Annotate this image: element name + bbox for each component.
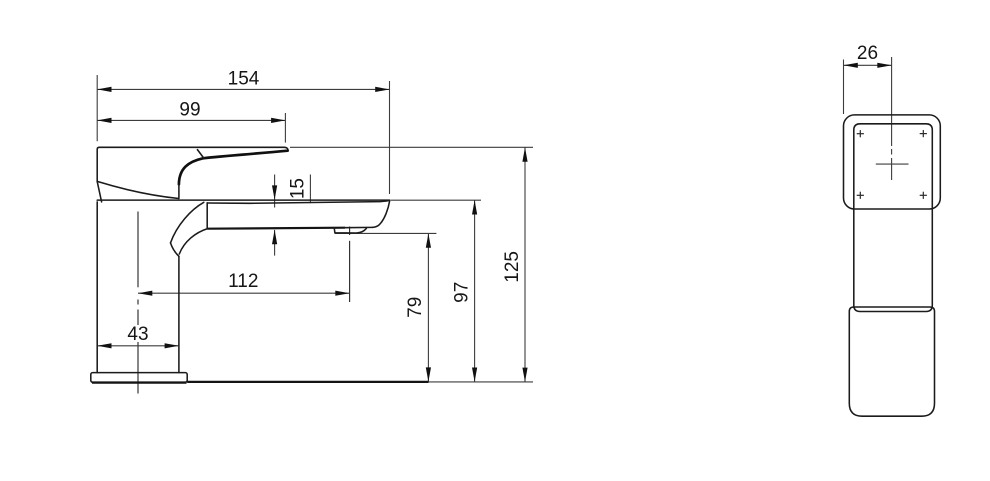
svg-text:15: 15: [288, 178, 309, 199]
svg-text:97: 97: [451, 282, 472, 303]
svg-text:99: 99: [179, 99, 200, 120]
svg-text:26: 26: [857, 43, 878, 64]
svg-text:112: 112: [228, 271, 258, 292]
svg-text:79: 79: [405, 297, 426, 318]
svg-text:43: 43: [127, 324, 148, 345]
svg-text:154: 154: [228, 68, 260, 89]
svg-text:125: 125: [502, 251, 523, 283]
